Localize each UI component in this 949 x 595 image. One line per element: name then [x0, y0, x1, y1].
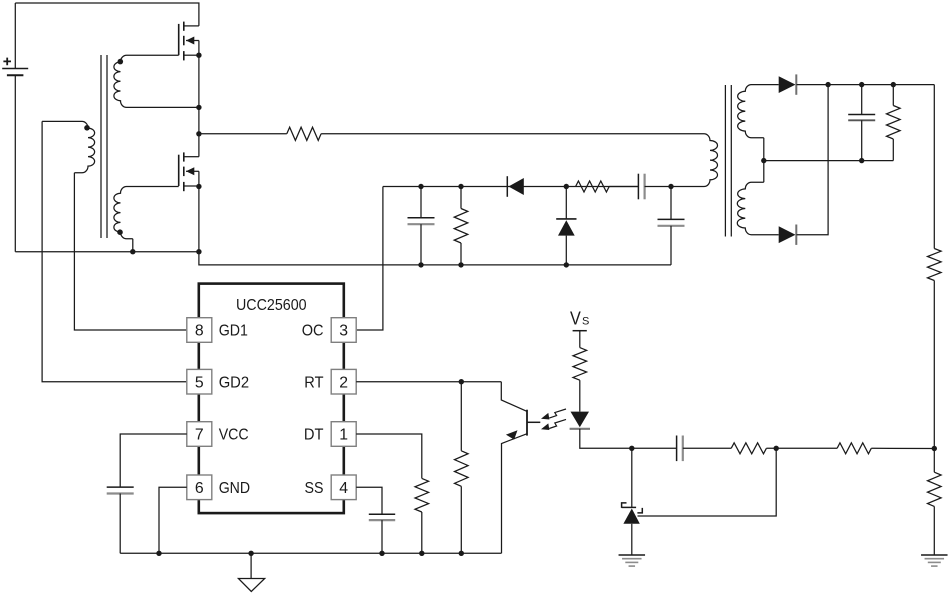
wire (C2 to Cr node) [645, 186, 671, 188]
wire (T1 lower secondary to rail) [132, 239, 134, 252]
resistor R10 (dead time) [415, 478, 429, 553]
node (half-bridge midpoint) [196, 131, 201, 136]
svg-text:UCC25600: UCC25600 [236, 297, 307, 314]
junction (resonant cap node) [668, 184, 673, 189]
wire (midpoint to resonant inductor) [199, 133, 287, 135]
resistor R3 [576, 181, 610, 192]
junction (R10 to rail) [419, 551, 424, 556]
svg-text:VCC: VCC [219, 427, 249, 444]
diode D4 [556, 219, 576, 265]
svg-text:DT: DT [304, 427, 324, 444]
wire (RT pin line) [356, 381, 501, 383]
junction (C4 tap) [859, 82, 864, 87]
junction (Q1 source / gate winding) [196, 53, 201, 58]
wire (DT pin to R10) [356, 434, 422, 478]
junction (C1 to tank return) [418, 262, 423, 267]
capacitor C5 (feedback) [677, 436, 683, 462]
capacitor C1 [408, 187, 435, 265]
diode D1 (output rectifier) [779, 74, 797, 94]
svg-text:SS: SS [305, 480, 324, 497]
polarity dot (T1 primary) [84, 125, 90, 131]
junction (Q2 source rail) [196, 249, 201, 254]
resistor R9 (LED bias) [573, 348, 587, 381]
junction (center tap node) [761, 158, 766, 163]
pin 4 (SS) [305, 475, 357, 500]
wire (R9 to LED) [579, 380, 581, 411]
junction (C4 to center tap) [859, 158, 864, 163]
light arrows (optocoupler) [541, 409, 566, 430]
pin 6 (GND) [187, 475, 250, 500]
wire (node to D4) [565, 187, 567, 220]
capacitor C7 (soft start) [369, 514, 395, 553]
wire (output rail down right side) [933, 85, 935, 249]
wire (D1 to output rail) [797, 84, 935, 86]
wire (OC pin 3 to sense node) [357, 187, 383, 331]
wire (R5 to feedback node) [933, 281, 935, 449]
resistor R8 (feedback) [731, 443, 766, 454]
shunt regulator U3 (TL431) [622, 503, 643, 555]
svg-text:3: 3 [339, 323, 348, 340]
svg-text:4: 4 [339, 480, 348, 497]
svg-text:GD2: GD2 [219, 374, 249, 391]
svg-text:1: 1 [339, 427, 348, 444]
svg-text:V: V [570, 308, 581, 328]
diode D2 (output rectifier) [779, 225, 797, 245]
svg-text:RT: RT [304, 374, 324, 391]
wire (Vs to R9) [579, 331, 581, 348]
resistor R11 (timing) [455, 382, 469, 554]
wire (T1 primary to GD1 pin 8) [74, 173, 186, 330]
wire (feedback node to C5) [632, 447, 677, 449]
capacitor C2 (series) [638, 174, 644, 200]
wire (node to U3 cathode) [631, 448, 633, 507]
resistor R7 (feedback) [837, 443, 871, 454]
junction (D3/D4/R3 node) [564, 184, 569, 189]
wire (center tap) [763, 138, 765, 182]
svg-text:6: 6 [195, 480, 204, 497]
wire (R8 to R7 node) [766, 447, 837, 449]
wire (REF sense line) [638, 448, 777, 516]
ground (output divider) [921, 555, 948, 566]
battery V1 (DC input) [2, 3, 28, 252]
junction (R2 to tank return) [458, 262, 463, 267]
svg-text:5: 5 [195, 374, 204, 391]
diode D3 [507, 176, 524, 197]
wire (LED cathode to feedback node) [580, 429, 632, 449]
polarity dot (T1 upper secondary) [118, 59, 124, 65]
junction (R11 to rail) [459, 551, 464, 556]
ground (TL431 anode) [619, 555, 646, 566]
wire (center tap line) [764, 160, 894, 162]
transformer T1 core [101, 55, 107, 238]
junction (REF tap node) [774, 446, 779, 451]
transistor Q1 (high-side MOSFET) [179, 22, 199, 61]
wire (C5 to R8) [683, 447, 731, 449]
svg-text:7: 7 [195, 427, 204, 444]
diode D5 (optocoupler LED) [570, 412, 590, 429]
capacitor C3 (resonant cap Cr) [658, 187, 685, 265]
transformer T2 core [725, 85, 731, 237]
junction (R11 tap) [459, 379, 464, 384]
svg-text:GND: GND [219, 480, 250, 497]
pin 7 (VCC) [187, 422, 249, 447]
svg-text:GD1: GD1 [219, 323, 248, 340]
resistor R1 (resonant inductor Lr) [287, 127, 321, 140]
capacitor C4 (output filter) [848, 85, 875, 161]
transformer T1 primary winding [42, 121, 95, 172]
resistor R4 (load) [887, 85, 901, 161]
transformer T1 lower secondary winding [114, 187, 179, 239]
wire (GND pin to ground rail) [159, 487, 187, 553]
pin 8 (GD1) [187, 318, 248, 343]
wire (ground rail) [120, 552, 501, 554]
svg-text:OC: OC [302, 323, 324, 340]
junction (GND pin rail) [156, 551, 161, 556]
wire (top rail V1+ to Q1 drain) [15, 3, 199, 26]
wire (rail down to resonant tank return) [199, 252, 671, 265]
pin 5 (GD2) [187, 369, 249, 394]
junction (R4 tap) [891, 82, 896, 87]
svg-text:2: 2 [339, 374, 348, 391]
polarity dot (T1 lower secondary) [117, 229, 123, 235]
wire (R1 to T2 primary) [321, 133, 704, 135]
resistor R6 (divider lower) [928, 449, 942, 556]
pin 1 (DT) [304, 422, 356, 447]
junction (T1 lower secondary return) [130, 249, 135, 254]
svg-text:S: S [582, 316, 589, 328]
junction (D2 join) [825, 82, 830, 87]
IC U1 (UCC25600 controller) [199, 284, 344, 513]
wire (V1- rail to Q2 source) [15, 251, 199, 253]
transformer T2 upper secondary winding [738, 85, 779, 138]
pin 3 (OC) [302, 318, 357, 343]
wire (VCC pin to bypass cap) [120, 434, 187, 487]
wire (Cr node to T2 primary bottom) [671, 186, 704, 188]
junction (TL431 cathode node) [629, 446, 634, 451]
wire (midpoint to Q2 drain) [198, 134, 200, 157]
wire (Q2 source down to primary return rail) [198, 187, 200, 252]
junction (T1 upper secondary return) [196, 105, 201, 110]
transformer T1 upper secondary winding [114, 55, 199, 107]
wire (SS pin to soft-start cap) [356, 487, 382, 514]
junction (C7 to rail) [379, 551, 384, 556]
junction (C1 tap) [418, 184, 423, 189]
junction (D4 to tank return) [564, 262, 569, 267]
wire (D2 up to output rail) [797, 85, 829, 235]
transformer T2 lower secondary winding [737, 182, 778, 235]
wire (T1 primary dotted end to GD2 pin 5) [42, 121, 186, 381]
resistor R2 [454, 187, 468, 265]
node Vs (bias supply) [570, 308, 589, 330]
wire (Q1 source to half-bridge midpoint) [198, 55, 200, 134]
wire (R3 to C2) [609, 186, 638, 188]
svg-text:8: 8 [195, 323, 204, 340]
transistor Q2 (low-side MOSFET) [179, 152, 199, 191]
transistor Q3 (optocoupler phototransistor) [501, 382, 540, 554]
junction (feedback divider node) [932, 446, 937, 451]
junction (Q2 source / gate winding) [196, 184, 201, 189]
wire (OC sense top line) [383, 186, 639, 188]
junction (chassis ground stub) [248, 551, 253, 556]
pin 2 (RT) [304, 369, 356, 394]
wire (R7 to divider node) [871, 447, 934, 449]
resistor R5 (divider upper) [928, 249, 942, 281]
ground (signal ground) [238, 553, 264, 591]
capacitor C6 (VCC bypass) [107, 487, 134, 553]
transformer T2 primary winding [704, 134, 718, 187]
junction (R2 tap) [458, 184, 463, 189]
